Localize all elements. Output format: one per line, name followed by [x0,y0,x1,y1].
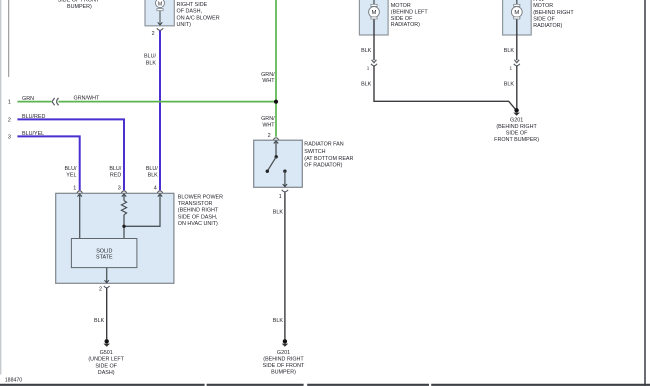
svg-text:RIGHT SIDE: RIGHT SIDE [177,2,208,8]
pin 1 of blower power transistor [73,185,82,196]
ground G201 (bottom center) [263,339,305,376]
pin 2 of A/C blower motor (connector cup) [152,28,164,37]
svg-text:BLK: BLK [504,48,515,54]
wire 3 BLU/YEL to transistor pin 1 [8,131,80,190]
svg-text:ON HVAC UNIT): ON HVAC UNIT) [178,221,218,227]
wire BLK from connector to ground G201 (right) [504,66,517,109]
pin 1 of radiator fan switch [279,190,288,200]
svg-text:SIDE OF: SIDE OF [391,16,413,22]
motor M2 radiator fan motor left (box, cut off at top) [359,0,428,35]
wire BLK from motor M3 down to inline connector [504,19,517,60]
svg-text:4: 4 [154,185,157,191]
svg-text:DASH): DASH) [98,370,115,376]
svg-text:2: 2 [99,286,102,292]
svg-text:(BEHIND LEFT: (BEHIND LEFT [391,9,429,15]
blower power transistor U1 (box) [56,193,223,283]
svg-text:SIDE OF: SIDE OF [533,17,555,23]
svg-text:BLK: BLK [94,318,105,324]
wire GRN/WHT horizontal to junction [58,96,276,102]
wire label BLU/BLK above transistor pin 4 [146,166,158,179]
svg-text:RADIATOR): RADIATOR) [533,23,562,29]
pin 2 of blower power transistor [99,286,110,293]
svg-text:188470: 188470 [5,377,22,383]
svg-text:BLU/: BLU/ [65,166,77,172]
svg-text:BLU/: BLU/ [146,166,158,172]
inline connector pin 1 (left fan motor) [367,60,377,71]
svg-text:RADIATOR FAN: RADIATOR FAN [304,142,343,148]
svg-text:SIDE OF FRONT: SIDE OF FRONT [263,363,305,369]
svg-text:1: 1 [73,185,76,191]
svg-text:1: 1 [509,66,512,71]
ground G501 [88,339,124,376]
svg-text:UNIT): UNIT) [177,22,192,28]
inline connector on wire 1 [52,98,59,105]
svg-text:SWITCH: SWITCH [304,149,325,155]
pin 3 of blower power transistor [118,185,127,196]
resistor R1 inside transistor (pin 3 branch) [121,194,126,238]
svg-text:1: 1 [367,66,370,71]
internal wire from pin 1 to solid state [79,194,81,238]
svg-text:M: M [158,1,162,7]
switch contacts and blade inside radiator fan switch [266,141,288,186]
internal output wire from solid state to pin 2 [105,268,109,283]
svg-text:BLU/: BLU/ [144,54,156,60]
wire GRN/WHT vertical from top to radiator fan switch [261,0,276,137]
svg-text:RADIATOR): RADIATOR) [391,22,420,28]
svg-text:GRN/: GRN/ [261,116,275,122]
svg-text:OF DASH,: OF DASH, [177,9,203,15]
svg-text:TRANSISTOR: TRANSISTOR [178,201,213,207]
junction dot inside transistor [122,225,125,228]
wire 1 GRN (left segment) [8,96,51,105]
svg-text:G501: G501 [100,350,113,356]
svg-text:(BEHIND RIGHT: (BEHIND RIGHT [178,207,219,213]
svg-text:2: 2 [152,31,155,37]
svg-text:SIDE OF DASH,: SIDE OF DASH, [178,214,218,220]
radiator fan switch S1 (box) [254,140,354,187]
svg-text:SIDE OF: SIDE OF [95,363,117,369]
svg-text:FRONT BUMPER): FRONT BUMPER) [494,137,539,143]
pin 2 of radiator fan switch [268,133,279,144]
svg-text:GRN: GRN [22,96,34,102]
solid state module (inner box) [71,239,136,268]
svg-text:3: 3 [118,185,121,191]
svg-text:BLK: BLK [146,60,157,66]
svg-text:(UNDER LEFT: (UNDER LEFT [88,357,124,363]
junction of GRN/WHT wires [274,100,278,104]
wire label BLU/YEL above transistor pin 1 [65,166,77,179]
svg-text:G201: G201 [277,350,290,356]
svg-text:BLU/RED: BLU/RED [22,114,45,120]
svg-text:MOTOR: MOTOR [533,3,553,9]
svg-text:M: M [372,10,377,16]
svg-text:BLOWER POWER: BLOWER POWER [178,195,223,201]
node: cut-off component label "SIDE OF FRONT BUMPER)" [58,0,100,10]
svg-text:2: 2 [268,133,271,139]
ground G201 (below fan motors) [494,108,539,143]
svg-text:BLU/YEL: BLU/YEL [22,131,44,137]
wire 2 BLU/RED to transistor pin 3 [8,114,124,190]
wire BLK from transistor pin 2 to ground G501 [94,288,107,339]
svg-text:SIDE OF: SIDE OF [506,130,528,136]
svg-text:ON A/C BLOWER: ON A/C BLOWER [177,15,220,21]
svg-text:(BEHIND RIGHT: (BEHIND RIGHT [496,124,537,130]
wire BLK from motor M2 down to inline connector [361,19,374,60]
svg-text:BLK: BLK [273,318,284,324]
svg-text:(BEHIND RIGHT: (BEHIND RIGHT [533,10,574,16]
svg-text:BLK: BLK [361,82,372,88]
svg-text:BLK: BLK [148,172,159,178]
wire BLK from connector to ground G201 (right) [361,66,516,110]
internal wire from pin 4 to junction [124,194,160,226]
inline connector pin 1 (right fan motor) [509,60,519,71]
svg-text:MOTOR: MOTOR [391,3,411,9]
motor M3 radiator fan motor right (box, cut off at top) [503,0,575,35]
wire BLK from switch pin 1 to ground G201 [273,192,285,339]
svg-text:OF RADIATOR): OF RADIATOR) [304,163,342,169]
wire label BLU/RED above transistor pin 3 [109,166,121,179]
svg-text:G201: G201 [510,118,523,124]
svg-text:M: M [514,10,519,16]
svg-text:3: 3 [8,134,11,140]
svg-text:GRN/WHT: GRN/WHT [74,96,100,102]
svg-text:(AT BOTTOM REAR: (AT BOTTOM REAR [304,156,353,162]
svg-text:1: 1 [279,194,282,200]
svg-text:GRN/: GRN/ [261,72,275,78]
svg-text:YEL: YEL [66,172,76,178]
wire BLU/BLK from blower motor pin 2 to transistor pin 4 [144,31,160,191]
svg-text:WHT: WHT [262,122,275,128]
svg-text:BUMPER): BUMPER) [67,4,92,10]
svg-text:RED: RED [110,172,121,178]
svg-text:2: 2 [8,117,11,123]
svg-text:BLK: BLK [361,48,372,54]
svg-text:BLK: BLK [273,209,284,215]
svg-text:(BEHIND RIGHT: (BEHIND RIGHT [263,357,304,363]
pin 4 of blower power transistor [154,185,163,196]
motor M1 A/C blower motor (box, cut off at top) [145,0,220,28]
svg-text:BLU/: BLU/ [109,166,121,172]
svg-text:WHT: WHT [262,78,275,84]
svg-text:1: 1 [8,100,11,106]
svg-text:BLK: BLK [504,82,515,88]
svg-text:BUMPER): BUMPER) [271,370,296,376]
svg-text:STATE: STATE [96,255,113,261]
